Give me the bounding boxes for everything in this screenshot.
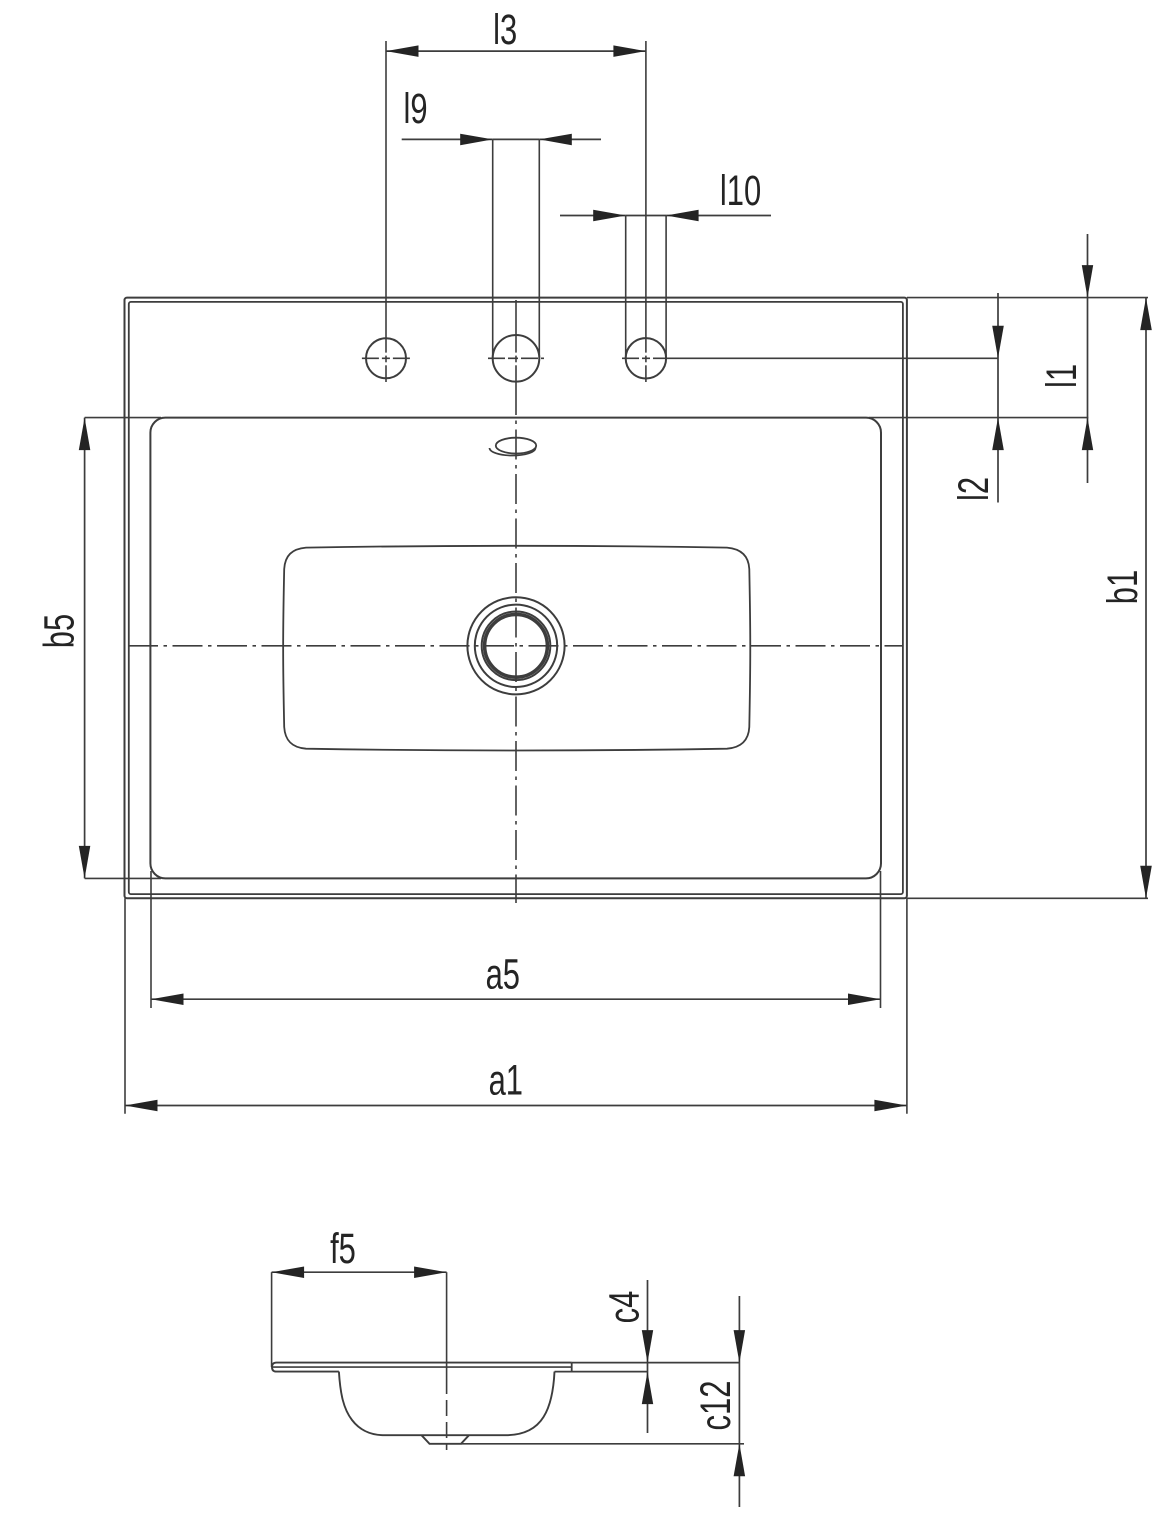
svg-text:l3: l3 — [493, 5, 517, 53]
svg-text:b5: b5 — [35, 614, 83, 648]
svg-text:c4: c4 — [600, 1291, 648, 1324]
svg-text:c12: c12 — [691, 1381, 739, 1431]
svg-text:f5: f5 — [330, 1224, 356, 1272]
svg-text:l9: l9 — [403, 84, 427, 132]
svg-text:a5: a5 — [486, 949, 520, 997]
svg-text:b1: b1 — [1098, 570, 1146, 604]
svg-text:l2: l2 — [949, 477, 997, 501]
svg-text:l10: l10 — [720, 166, 761, 214]
svg-text:a1: a1 — [489, 1056, 523, 1104]
svg-text:l1: l1 — [1037, 364, 1085, 388]
